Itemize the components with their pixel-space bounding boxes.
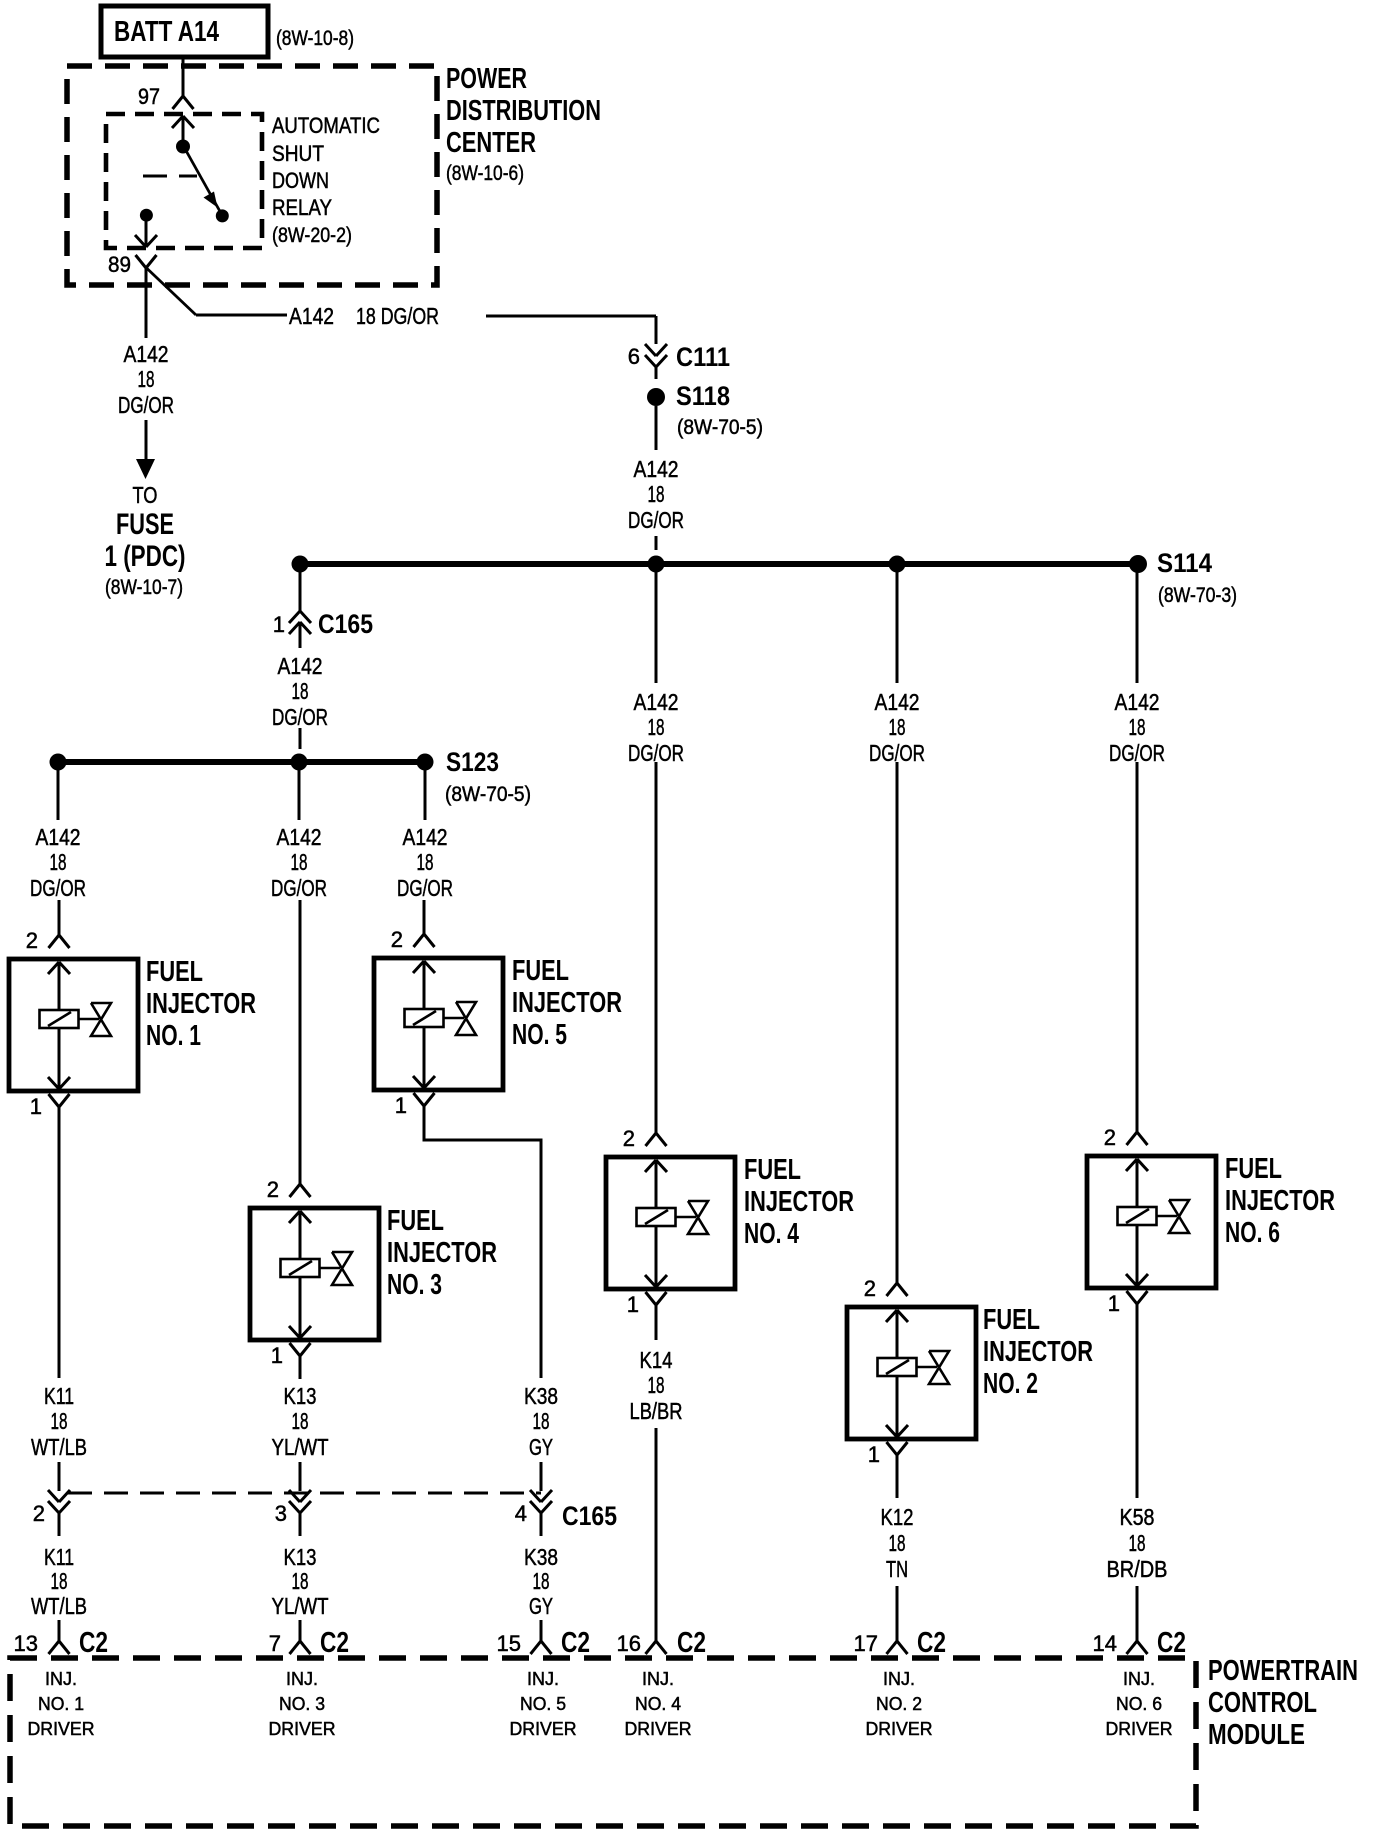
svg-text:K38: K38	[524, 1383, 558, 1409]
bus junction dots	[292, 556, 309, 573]
wire A142 from S118 to bus	[655, 406, 658, 450]
powertrain control module dashed box	[10, 1658, 1196, 1826]
svg-text:YL/WT: YL/WT	[272, 1434, 329, 1460]
relay output contact	[140, 209, 153, 222]
fuel injector NO. 3 pin 2 connector	[299, 1170, 302, 1184]
svg-text:DG/OR: DG/OR	[271, 875, 327, 901]
svg-text:NO. 4: NO. 4	[635, 1694, 681, 1714]
svg-text:BR/DB: BR/DB	[1107, 1556, 1168, 1582]
svg-text:18: 18	[50, 849, 67, 875]
svg-text:INJECTOR: INJECTOR	[744, 1186, 854, 1218]
wire K11 from injector 1 to C165	[58, 1130, 61, 1378]
wire continuing to C111	[486, 315, 656, 318]
fuel injector NO. 2 pin 2 connector	[896, 1269, 899, 1283]
svg-text:2: 2	[26, 928, 38, 953]
svg-text:FUEL: FUEL	[1225, 1153, 1282, 1185]
battery feed box BATT A14	[101, 6, 268, 57]
svg-text:C2: C2	[320, 1627, 349, 1659]
svg-text:DRIVER: DRIVER	[866, 1719, 933, 1739]
svg-text:LB/BR: LB/BR	[630, 1398, 683, 1424]
connector C2 pin 16 fork	[646, 1641, 657, 1654]
svg-text:NO. 2: NO. 2	[876, 1694, 922, 1714]
svg-text:GY: GY	[529, 1593, 553, 1619]
svg-text:15: 15	[497, 1631, 521, 1656]
svg-text:DRIVER: DRIVER	[625, 1719, 692, 1739]
fuel injector NO. 2 box	[847, 1307, 976, 1439]
svg-text:C165: C165	[562, 1501, 617, 1531]
svg-text:1: 1	[271, 1343, 283, 1368]
fuel injector NO. 2 pin 1 connector	[887, 1442, 898, 1455]
svg-text:K38: K38	[524, 1544, 558, 1570]
fuel injector NO. 3 pin 1 connector	[290, 1343, 301, 1356]
wire from bus to injector 6	[1136, 567, 1139, 683]
wire K13 from injector 3 to C165	[299, 1378, 302, 1379]
connector C2 pin 13 fork	[49, 1641, 60, 1654]
fuel injector NO. 6 box	[1087, 1156, 1216, 1288]
svg-text:C2: C2	[1157, 1627, 1186, 1659]
svg-text:GY: GY	[529, 1434, 553, 1460]
svg-text:DG/OR: DG/OR	[118, 392, 174, 418]
svg-text:MODULE: MODULE	[1208, 1719, 1305, 1751]
wire K12 from injector 2 to PCM	[896, 1478, 899, 1498]
relay output wire to pin 89	[145, 215, 148, 247]
svg-text:NO. 6: NO. 6	[1225, 1217, 1280, 1249]
svg-text:TN: TN	[886, 1556, 908, 1582]
svg-text:A142: A142	[875, 689, 920, 715]
svg-text:A142: A142	[1115, 689, 1160, 715]
wire K38 to PCM	[540, 1620, 543, 1641]
svg-text:18: 18	[889, 714, 906, 740]
svg-text:FUSE: FUSE	[116, 508, 174, 541]
svg-text:YL/WT: YL/WT	[272, 1593, 329, 1619]
svg-text:DRIVER: DRIVER	[510, 1719, 577, 1739]
svg-text:INJ.: INJ.	[527, 1669, 559, 1689]
svg-text:2: 2	[623, 1126, 635, 1151]
svg-text:NO. 2: NO. 2	[983, 1368, 1038, 1400]
svg-text:NO. 4: NO. 4	[744, 1218, 799, 1250]
svg-text:INJ.: INJ.	[883, 1669, 915, 1689]
S123 bus junction dots	[50, 754, 67, 771]
svg-text:1: 1	[395, 1093, 407, 1118]
wire from bus to injector 2	[896, 567, 899, 683]
svg-text:7: 7	[269, 1631, 281, 1656]
svg-text:C2: C2	[677, 1627, 706, 1659]
wire K38 from injector 5 jog to C165	[424, 1129, 541, 1378]
svg-text:C2: C2	[917, 1627, 946, 1659]
relay pin 97 chevron at box edge	[172, 116, 183, 128]
svg-text:K13: K13	[284, 1383, 317, 1409]
wire K58 from injector 6 to PCM	[1136, 1327, 1139, 1498]
svg-text:2: 2	[33, 1501, 45, 1526]
svg-text:(8W-70-5): (8W-70-5)	[677, 416, 763, 439]
svg-text:(8W-10-6): (8W-10-6)	[446, 162, 524, 185]
automatic shut down relay dashed box	[106, 114, 262, 248]
wire resuming to fuse arrow	[145, 420, 148, 461]
svg-text:18: 18	[138, 366, 155, 392]
svg-text:INJ.: INJ.	[1123, 1669, 1155, 1689]
wire from S123 bus to injector 5	[424, 766, 427, 820]
svg-text:(8W-10-7): (8W-10-7)	[105, 576, 183, 599]
fuel injector NO. 5 internal coil and valve symbol	[413, 961, 424, 973]
fuel injector NO. 1 pin 1 connector	[49, 1094, 60, 1107]
svg-text:A142: A142	[278, 653, 323, 679]
svg-text:(8W-20-2): (8W-20-2)	[272, 224, 352, 247]
C165 pin 3 double chevron	[289, 1490, 300, 1502]
svg-text:16: 16	[617, 1631, 641, 1656]
svg-text:NO. 1: NO. 1	[146, 1020, 201, 1052]
wire K14 from injector 4 to PCM	[655, 1328, 658, 1340]
fuel injector NO. 4 pin 2 connector	[655, 1119, 658, 1133]
wire from S123 bus to injector 1	[57, 766, 60, 820]
svg-text:INJ.: INJ.	[45, 1669, 77, 1689]
branch wire from pin 89 to C111	[147, 268, 197, 315]
inline connector C165 dashed line	[68, 1492, 541, 1495]
svg-text:DG/OR: DG/OR	[272, 704, 328, 730]
svg-text:NO. 1: NO. 1	[38, 1694, 84, 1714]
fuel injector NO. 4 box	[606, 1157, 735, 1289]
svg-text:FUEL: FUEL	[387, 1205, 444, 1237]
svg-text:1 (PDC): 1 (PDC)	[105, 540, 186, 573]
relay common wire	[182, 116, 185, 146]
svg-text:WT/LB: WT/LB	[31, 1434, 87, 1460]
svg-text:2: 2	[864, 1276, 876, 1301]
svg-text:18: 18	[417, 849, 434, 875]
svg-text:A142: A142	[403, 824, 448, 850]
svg-text:1: 1	[1108, 1291, 1120, 1316]
svg-text:17: 17	[854, 1631, 878, 1656]
svg-text:4: 4	[515, 1501, 527, 1526]
svg-text:S118: S118	[676, 381, 730, 411]
connector C165 pin 1 double chevron	[289, 611, 300, 623]
arrow TO FUSE 1 (PDC)	[136, 459, 155, 479]
svg-text:C165: C165	[318, 609, 373, 639]
svg-text:INJECTOR: INJECTOR	[983, 1336, 1093, 1368]
svg-text:DISTRIBUTION: DISTRIBUTION	[446, 95, 601, 127]
svg-text:CONTROL: CONTROL	[1208, 1687, 1317, 1719]
relay pivot contact	[176, 140, 190, 154]
svg-text:2: 2	[1104, 1125, 1116, 1150]
svg-text:WT/LB: WT/LB	[31, 1593, 87, 1619]
svg-text:INJ.: INJ.	[642, 1669, 674, 1689]
svg-text:18: 18	[533, 1568, 550, 1594]
svg-text:A142: A142	[36, 824, 81, 850]
relay internal dashed coil line	[143, 175, 167, 178]
connector C111 double chevron	[645, 344, 656, 356]
wire K11 to PCM	[58, 1620, 61, 1641]
svg-text:FUEL: FUEL	[146, 956, 203, 988]
svg-text:1: 1	[627, 1292, 639, 1317]
svg-text:DRIVER: DRIVER	[269, 1719, 336, 1739]
fuel injector NO. 4 internal coil and valve symbol	[645, 1160, 656, 1172]
svg-text:SHUT: SHUT	[272, 141, 324, 166]
svg-text:K13: K13	[284, 1544, 317, 1570]
svg-text:18: 18	[648, 714, 665, 740]
svg-text:6: 6	[628, 344, 640, 369]
svg-text:14: 14	[1093, 1631, 1117, 1656]
svg-text:89: 89	[108, 252, 131, 277]
svg-text:INJECTOR: INJECTOR	[512, 987, 622, 1019]
main splice bus S114	[296, 561, 1138, 567]
wire from bus to injector 4	[655, 567, 658, 683]
fuel injector NO. 3 internal coil and valve symbol	[289, 1211, 300, 1223]
connector C2 pin 15 fork	[531, 1641, 542, 1654]
splice S118	[647, 388, 665, 406]
power distribution center dashed box	[67, 66, 437, 285]
svg-text:K14: K14	[640, 1347, 673, 1373]
svg-text:A142: A142	[289, 303, 334, 329]
svg-text:18: 18	[51, 1568, 68, 1594]
svg-text:K11: K11	[44, 1544, 74, 1570]
svg-text:POWERTRAIN: POWERTRAIN	[1208, 1655, 1358, 1687]
svg-text:18: 18	[292, 678, 309, 704]
fuel injector NO. 2 internal coil and valve symbol	[886, 1310, 897, 1322]
svg-text:AUTOMATIC: AUTOMATIC	[272, 113, 380, 138]
svg-text:S123: S123	[446, 747, 499, 777]
svg-text:S114: S114	[1157, 548, 1212, 578]
svg-text:A142: A142	[277, 824, 322, 850]
svg-text:13: 13	[14, 1631, 38, 1656]
svg-text:1: 1	[30, 1094, 42, 1119]
svg-text:A142: A142	[634, 456, 679, 482]
svg-text:K12: K12	[881, 1504, 914, 1530]
svg-text:CENTER: CENTER	[446, 127, 536, 159]
fuel injector NO. 5 pin 1 connector	[414, 1093, 425, 1106]
fuel injector NO. 4 pin 1 connector	[646, 1292, 657, 1305]
svg-text:DRIVER: DRIVER	[28, 1719, 95, 1739]
wire from BATT A14 to relay pin 97	[182, 57, 185, 96]
svg-text:97: 97	[138, 84, 160, 109]
svg-text:18: 18	[51, 1408, 68, 1434]
svg-text:A142: A142	[124, 341, 169, 367]
svg-text:(8W-10-8): (8W-10-8)	[276, 27, 354, 50]
svg-text:INJECTOR: INJECTOR	[146, 988, 256, 1020]
svg-text:18: 18	[1129, 1530, 1146, 1556]
svg-text:C2: C2	[79, 1627, 108, 1659]
svg-text:TO: TO	[133, 482, 158, 508]
svg-text:DG/OR: DG/OR	[628, 507, 684, 533]
wire from bus to connector C165 pin 1	[299, 568, 302, 611]
fuel injector NO. 6 pin 1 connector	[1127, 1291, 1138, 1304]
wire from S123 bus to injector 3	[298, 766, 301, 820]
relay switch arm end contact	[216, 209, 229, 222]
pin 89 connector fork	[136, 255, 147, 268]
svg-text:NO. 5: NO. 5	[512, 1019, 567, 1051]
svg-text:NO. 3: NO. 3	[279, 1694, 325, 1714]
fuel injector NO. 1 pin 2 connector	[58, 921, 61, 935]
C165 pin 4 double chevron	[530, 1490, 541, 1502]
svg-text:DG/OR: DG/OR	[397, 875, 453, 901]
connector pin 97 fork	[173, 96, 184, 109]
svg-text:K11: K11	[44, 1383, 74, 1409]
svg-text:NO. 3: NO. 3	[387, 1269, 442, 1301]
svg-text:DRIVER: DRIVER	[1106, 1719, 1173, 1739]
svg-text:18: 18	[648, 481, 665, 507]
connector C2 pin 14 fork	[1127, 1641, 1138, 1654]
svg-text:NO. 5: NO. 5	[520, 1694, 566, 1714]
fuel injector NO. 6 internal coil and valve symbol	[1126, 1159, 1137, 1171]
svg-text:C111: C111	[676, 342, 730, 372]
fuel injector NO. 3 box	[250, 1208, 379, 1340]
C165 pin 2 double chevron	[48, 1490, 59, 1502]
svg-text:FUEL: FUEL	[983, 1304, 1040, 1336]
svg-text:FUEL: FUEL	[512, 955, 569, 987]
svg-text:1: 1	[273, 612, 285, 637]
svg-text:1: 1	[868, 1442, 880, 1467]
svg-text:K58: K58	[1120, 1504, 1155, 1530]
svg-text:3: 3	[275, 1501, 287, 1526]
fuel injector NO. 1 box	[9, 959, 138, 1091]
svg-text:RELAY: RELAY	[272, 195, 332, 220]
svg-text:18: 18	[889, 1530, 906, 1556]
svg-text:18: 18	[292, 1568, 309, 1594]
svg-text:DOWN: DOWN	[272, 168, 329, 193]
relay pin 89 chevron at box edge	[135, 235, 146, 247]
svg-text:DG/OR: DG/OR	[30, 875, 86, 901]
fuel injector NO. 5 pin 2 connector	[423, 920, 426, 934]
connector C2 pin 17 fork	[887, 1641, 898, 1654]
svg-text:18: 18	[648, 1372, 665, 1398]
wire K13 to PCM	[299, 1620, 302, 1641]
svg-text:BATT A14: BATT A14	[114, 16, 219, 48]
svg-text:FUEL: FUEL	[744, 1154, 801, 1186]
svg-text:INJECTOR: INJECTOR	[1225, 1185, 1335, 1217]
svg-text:INJ.: INJ.	[286, 1669, 318, 1689]
fuel injector NO. 5 box	[374, 958, 503, 1090]
svg-text:18 DG/OR: 18 DG/OR	[356, 303, 439, 329]
splice bus S123	[58, 759, 425, 765]
fuel injector NO. 6 pin 2 connector	[1136, 1118, 1139, 1132]
svg-text:2: 2	[267, 1177, 279, 1202]
svg-text:NO. 6: NO. 6	[1116, 1694, 1162, 1714]
wire A142 down from pin 89	[145, 268, 148, 338]
svg-text:(8W-70-3): (8W-70-3)	[1158, 584, 1237, 607]
svg-text:18: 18	[533, 1408, 550, 1434]
svg-text:18: 18	[291, 849, 308, 875]
connector C2 pin 7 fork	[290, 1641, 301, 1654]
svg-text:A142: A142	[634, 689, 679, 715]
svg-text:18: 18	[1129, 714, 1146, 740]
fuel injector NO. 1 internal coil and valve symbol	[48, 962, 59, 974]
svg-text:(8W-70-5): (8W-70-5)	[445, 783, 531, 806]
relay switch arm	[184, 147, 222, 216]
svg-text:POWER: POWER	[446, 63, 527, 95]
svg-text:INJECTOR: INJECTOR	[387, 1237, 497, 1269]
svg-text:C2: C2	[561, 1627, 590, 1659]
svg-text:18: 18	[292, 1408, 309, 1434]
svg-text:2: 2	[391, 927, 403, 952]
